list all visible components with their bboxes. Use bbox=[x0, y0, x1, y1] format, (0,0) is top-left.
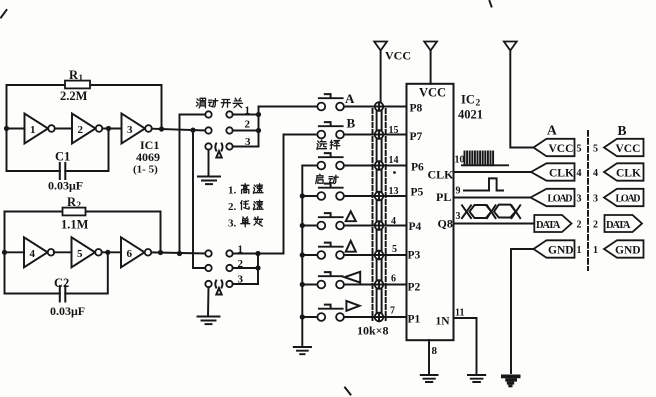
svg-text:VCC: VCC bbox=[549, 143, 574, 155]
connector B pin 2 DATA bbox=[593, 215, 642, 232]
svg-text:3: 3 bbox=[593, 194, 598, 205]
ground under S2 bbox=[198, 287, 220, 324]
svg-text:3.: 3. bbox=[228, 218, 237, 230]
svg-text:13: 13 bbox=[389, 186, 399, 197]
svg-text:DATA: DATA bbox=[606, 220, 631, 231]
node: S1 common junctions bbox=[256, 112, 261, 117]
svg-text:2: 2 bbox=[593, 220, 598, 231]
label: IC2 right pin numbers bbox=[455, 155, 465, 319]
svg-text:2.2M: 2.2M bbox=[60, 89, 88, 103]
wire: button SB6 to IC pin P3 bbox=[344, 254, 407, 256]
svg-text:10: 10 bbox=[455, 155, 465, 166]
svg-text:B: B bbox=[618, 123, 627, 138]
svg-text:1: 1 bbox=[30, 124, 36, 136]
svg-text:PL: PL bbox=[436, 190, 451, 204]
wire: S2 common vertical bbox=[257, 254, 259, 285]
svg-text:C2: C2 bbox=[54, 276, 69, 290]
wire: S1 output to button A bbox=[259, 106, 318, 108]
svg-text:C1: C1 bbox=[55, 150, 70, 164]
node: vertical B junction on osc1 row bbox=[190, 128, 195, 133]
op-amp U1d inverter 4 bbox=[24, 237, 54, 267]
label: 1.high speed bbox=[228, 184, 263, 197]
svg-text:GND: GND bbox=[548, 245, 574, 257]
svg-text:3: 3 bbox=[127, 124, 133, 136]
svg-text:LOAD: LOAD bbox=[548, 194, 573, 205]
wire: inverter4 to inverter5 bbox=[54, 251, 72, 253]
svg-text:14: 14 bbox=[389, 155, 399, 166]
op-amp U1b inverter 2 bbox=[72, 114, 102, 144]
svg-text:1.: 1. bbox=[228, 185, 237, 197]
wire: osc2 output row to switch S2 bbox=[151, 252, 205, 253]
svg-text:P4: P4 bbox=[409, 221, 422, 233]
svg-text:2: 2 bbox=[245, 119, 251, 131]
resistor R1 bbox=[60, 68, 90, 103]
IC U2 (IC2 4021) body bbox=[407, 84, 454, 340]
svg-text:P1: P1 bbox=[408, 314, 421, 326]
label: S2 position numbers 1 2 3 bbox=[238, 244, 244, 286]
node: vertical A junction on osc2 row bbox=[177, 251, 182, 256]
svg-text:6: 6 bbox=[127, 248, 133, 260]
scan mark bottom tick bbox=[345, 388, 351, 395]
divider dashed line between A and B bbox=[587, 131, 589, 270]
svg-text:5: 5 bbox=[392, 244, 397, 255]
svg-text:4021: 4021 bbox=[458, 108, 483, 122]
svg-text:GND: GND bbox=[615, 245, 641, 257]
connector A pin 1 GND bbox=[534, 240, 582, 257]
ground under button column bbox=[294, 347, 311, 354]
wire: C2 bottom rail bbox=[5, 252, 108, 293]
slide switch S1 contacts bbox=[205, 111, 232, 149]
svg-text:A: A bbox=[547, 123, 557, 138]
svg-text:7: 7 bbox=[390, 306, 395, 317]
node: osc1 input junction bbox=[4, 126, 9, 131]
ground at pin 8 bbox=[421, 375, 438, 382]
wire: S1 common vertical bbox=[258, 107, 260, 147]
connector A pin 4 CLK bbox=[531, 163, 582, 180]
svg-text:3: 3 bbox=[456, 211, 461, 222]
svg-text:VCC: VCC bbox=[385, 49, 411, 63]
power VCC arrow 1 bbox=[374, 42, 411, 103]
svg-text:(1- 5): (1- 5) bbox=[133, 164, 158, 176]
pushbutton SB6 (down) bbox=[302, 241, 356, 259]
ground under S1 bbox=[198, 150, 220, 184]
ground: solid arrow at bottom of GND rail bbox=[501, 375, 521, 388]
wire: CLK pin 10 to connector A bbox=[454, 171, 531, 173]
svg-text:4: 4 bbox=[577, 168, 582, 179]
wire: button SB4 to IC pin P5 bbox=[344, 195, 407, 197]
label IC2 4021 bbox=[458, 93, 483, 122]
wire: S1 right contacts to common bbox=[233, 115, 259, 147]
svg-text:1: 1 bbox=[79, 73, 84, 83]
resistor R2 bbox=[61, 195, 89, 232]
connector B pin 3 LOAD bbox=[593, 189, 644, 206]
svg-text:9: 9 bbox=[456, 186, 461, 197]
label IC1 4069 (1-5) bbox=[133, 138, 160, 176]
wire: inverter2 to inverter3 bbox=[102, 128, 121, 130]
label: 2.low speed bbox=[228, 200, 263, 213]
wire: IC2 pin 8 to ground bbox=[428, 340, 430, 374]
wire: osc2 input row bbox=[5, 251, 25, 253]
svg-text:P8: P8 bbox=[410, 103, 423, 115]
svg-text:2: 2 bbox=[77, 200, 82, 210]
svg-text:R: R bbox=[69, 68, 79, 82]
wire: button B to IC pin P7 bbox=[344, 134, 407, 136]
wire: button column left vertical with ground bbox=[302, 166, 317, 347]
svg-text:R: R bbox=[67, 195, 77, 209]
wire: button SB3 to IC pin P6 bbox=[344, 165, 407, 167]
pushbutton SB5 (up) bbox=[302, 211, 356, 229]
wire: GND connector A down to ground arrow bbox=[511, 249, 535, 373]
pushbutton SB2 (B) bbox=[317, 116, 355, 139]
connector B pin 1 GND bbox=[593, 240, 644, 257]
pushbutton SB1 (A) bbox=[317, 91, 355, 110]
svg-text:10k×8: 10k×8 bbox=[357, 324, 389, 338]
svg-text:5: 5 bbox=[577, 144, 582, 155]
svg-text:4069: 4069 bbox=[136, 150, 160, 164]
wire: osc1 output row to switch S1 bbox=[152, 129, 206, 131]
wire: osc1 input row bbox=[7, 128, 25, 130]
svg-text:CLK: CLK bbox=[616, 168, 641, 180]
op-amp U1f inverter 6 bbox=[121, 237, 151, 267]
svg-text:VCC: VCC bbox=[419, 86, 446, 100]
svg-text:11: 11 bbox=[455, 308, 464, 319]
node: osc2 C2 junction bbox=[105, 250, 110, 255]
node: button column junctions bbox=[300, 193, 305, 319]
pushbutton SB4 (start) bbox=[302, 184, 344, 200]
svg-text:0.03μF: 0.03μF bbox=[48, 179, 83, 193]
svg-text:P6: P6 bbox=[411, 162, 424, 174]
wire: button SB5 to IC pin P4 bbox=[344, 225, 407, 227]
label: start (qi dong) bbox=[316, 174, 339, 183]
wire: vertical B (osc1 row to S2 row2) bbox=[193, 130, 205, 268]
node: RN1 bus taps bbox=[375, 102, 384, 321]
svg-text:4: 4 bbox=[391, 216, 396, 227]
svg-text:2: 2 bbox=[78, 124, 84, 136]
connector A pin 2 DATA bbox=[534, 215, 581, 232]
svg-text:P7: P7 bbox=[410, 131, 423, 143]
svg-text:P5: P5 bbox=[411, 187, 424, 199]
svg-text:P3: P3 bbox=[408, 250, 421, 262]
pushbutton SB8 (right) bbox=[302, 301, 359, 321]
scan mark top-right comma bbox=[490, 1, 492, 7]
capacitor C2 bbox=[50, 276, 85, 318]
svg-text:CLK: CLK bbox=[549, 168, 574, 180]
wire: inverter1 to inverter2 bbox=[55, 128, 72, 130]
svg-text:6: 6 bbox=[391, 274, 396, 285]
wire: PL pin 9 to connector A bbox=[454, 197, 531, 199]
label: pin numbers left of IC2 bbox=[389, 125, 399, 317]
power VCC arrow 2 bbox=[424, 42, 437, 84]
node: osc1 C1 junction bbox=[106, 126, 111, 131]
op-amp U1e inverter 5 bbox=[72, 237, 102, 267]
node: osc2 output junction at R2 bbox=[158, 250, 163, 255]
pushbutton SB3 (select) bbox=[317, 153, 344, 169]
svg-text:IC: IC bbox=[461, 93, 475, 107]
connector A pin 5 VCC bbox=[534, 139, 582, 156]
label: IC2 left pin names bbox=[408, 103, 425, 326]
label: select (xuan ze) bbox=[317, 140, 340, 149]
label: 3.single shot bbox=[228, 217, 263, 230]
connector B pin 5 VCC bbox=[593, 139, 644, 156]
svg-text:DATA: DATA bbox=[536, 220, 561, 231]
wire: C1 bottom rail bbox=[7, 129, 109, 172]
connector B pin 4 CLK bbox=[593, 163, 644, 180]
waveform: Q8 serial data bbox=[462, 205, 520, 219]
label: S1 position numbers 1 2 3 bbox=[245, 105, 252, 149]
label: slide switch caption (hua dong kai guan) bbox=[196, 98, 242, 108]
svg-text:4: 4 bbox=[593, 168, 598, 179]
power VCC arrow 3 bbox=[504, 42, 535, 148]
wire: S1 row1 to vertical A bbox=[180, 114, 206, 116]
slide switch S2 contacts bbox=[205, 250, 232, 287]
wire: Q8 pin 3 to connector A bbox=[454, 223, 535, 225]
pushbutton SB7 (left) bbox=[302, 272, 360, 289]
svg-text:1.1M: 1.1M bbox=[61, 218, 89, 232]
wire: pin 11 to ground bbox=[454, 318, 477, 374]
op-amp U1c inverter 3 bbox=[122, 114, 152, 144]
node: osc1 output junction at R1 bbox=[159, 126, 164, 131]
svg-text:1N: 1N bbox=[436, 316, 451, 328]
label: IC2 right pin names bbox=[428, 168, 455, 328]
wire: button SB8 to IC pin P1 bbox=[344, 316, 407, 318]
wire: S2 right contacts to common bbox=[233, 254, 258, 285]
svg-text:A: A bbox=[345, 91, 355, 106]
connector A pin 3 LOAD bbox=[531, 189, 582, 206]
svg-text:CLK: CLK bbox=[428, 168, 455, 182]
svg-text:1: 1 bbox=[593, 245, 598, 256]
wire: osc2 feedback loop (left vertical, top rail, right vertical) bbox=[5, 212, 161, 294]
svg-text:LOAD: LOAD bbox=[616, 194, 641, 205]
wire: button SB7 to IC pin P2 bbox=[344, 284, 407, 286]
node: osc2 input junction bbox=[2, 250, 7, 255]
svg-text:2: 2 bbox=[577, 220, 582, 231]
svg-text:0.03μF: 0.03μF bbox=[50, 304, 85, 318]
svg-text:2.: 2. bbox=[228, 201, 237, 213]
wire: button A to IC pin P8 bbox=[344, 106, 407, 108]
slide switch S1 wiper mark bbox=[215, 144, 222, 158]
wire: S2 output up to button B row bbox=[258, 135, 317, 254]
resistor network RN1 bus (10k x 8) bbox=[373, 107, 386, 321]
svg-text:8: 8 bbox=[432, 345, 438, 357]
svg-text:4: 4 bbox=[30, 248, 36, 260]
svg-text:15: 15 bbox=[389, 125, 399, 136]
slide switch S2 wiper mark bbox=[215, 281, 222, 295]
svg-text:5: 5 bbox=[77, 248, 83, 260]
svg-text:P2: P2 bbox=[408, 282, 421, 294]
waveform: CLK burst pulses bbox=[462, 152, 508, 166]
op-amp U1a inverter 1 bbox=[25, 114, 55, 144]
wire: inverter5 to inverter6 bbox=[102, 251, 121, 253]
svg-text:VCC: VCC bbox=[616, 143, 641, 155]
svg-text:1: 1 bbox=[577, 245, 582, 256]
svg-text:5: 5 bbox=[593, 144, 598, 155]
wire: vertical A (S1 row1 to S2 row1) bbox=[179, 115, 181, 254]
ground at pin 11 bbox=[468, 375, 485, 382]
capacitor C1 bbox=[48, 150, 83, 193]
scan mark top-left bbox=[1, 10, 7, 18]
svg-text:B: B bbox=[347, 116, 356, 131]
svg-text:Q8: Q8 bbox=[438, 217, 453, 231]
svg-text:3: 3 bbox=[577, 194, 582, 205]
waveform: PL single pulse bbox=[464, 178, 503, 190]
wire: osc1 feedback loop (left vertical, top rail, right vertical) bbox=[7, 85, 162, 171]
node: S2 common junctions bbox=[255, 251, 260, 256]
